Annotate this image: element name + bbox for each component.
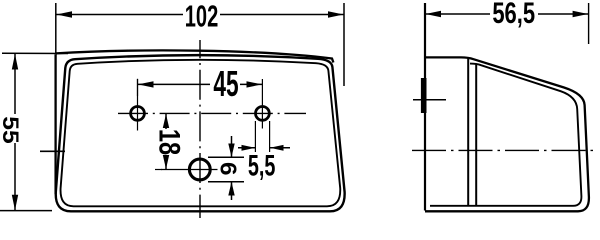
front view lens outer outline — [56, 55, 345, 211]
side view housing-lens boundary line 1 — [467, 58, 469, 206]
side view outer outline — [425, 57, 589, 211]
hole right circle — [256, 107, 270, 121]
big hole horizontal crosshair — [161, 169, 218, 171]
front view lens inner outline — [61, 60, 341, 206]
front view body left edge — [54, 54, 56, 194]
side view screw cross line — [413, 99, 446, 101]
big hole circle — [189, 159, 210, 180]
dimension 18 extension at big hole — [155, 169, 162, 171]
dimension 6 lower arrow — [228, 182, 234, 196]
dimension 6 lower arrow line — [231, 182, 233, 200]
dimension 55 line — [14, 54, 16, 210]
svg-text:55: 55 — [0, 116, 23, 143]
dimension 56,5 left arrow — [426, 11, 442, 17]
dimension 5,5 right arrow — [270, 145, 284, 151]
svg-text:6: 6 — [215, 162, 241, 175]
side view housing-lens boundary line 2 — [475, 64, 477, 206]
dimension 45 left arrow — [138, 81, 154, 87]
dimension 18 top arrow — [163, 114, 169, 128]
dimension 5,5 left arrow — [242, 145, 256, 151]
dimension 5,5 line — [238, 147, 290, 149]
dimension 55 top arrow — [12, 54, 18, 70]
dimension 102 line — [56, 14, 344, 16]
dimension 6 upper arrow — [228, 144, 234, 158]
hole left circle — [131, 107, 145, 121]
dimension 6 upper arrow line — [231, 136, 233, 157]
dimension 102 left extension line — [55, 3, 57, 53]
dimension 102 right arrow — [328, 11, 344, 17]
front view body top arc — [56, 50, 334, 62]
side view centerline (dash-dot) — [412, 149, 597, 151]
dimension 45 left extension — [137, 79, 139, 96]
dimension 102 left arrow — [57, 11, 73, 17]
dimension 102 right extension line — [343, 3, 345, 86]
dimension 56,5 line — [425, 13, 588, 15]
svg-text:45: 45 — [213, 65, 238, 104]
dimension 55 bottom arrow — [12, 195, 18, 211]
dimension 5,5 right tangent line — [269, 121, 271, 152]
side view left edge / extension line — [424, 3, 426, 211]
hole left vertical crosshair — [137, 79, 139, 131]
dimension 5,5 left tangent line — [254, 121, 256, 152]
side view mounting tab — [421, 78, 427, 113]
dimension 55 top extension line — [2, 52, 68, 54]
dimension 18 bottom arrow — [163, 155, 169, 169]
svg-text:18: 18 — [153, 129, 186, 155]
centerline vertical through big hole (dash-dot) — [199, 40, 201, 218]
dimension 6 top tangent line — [208, 156, 244, 158]
dimension 45 right arrow — [247, 81, 263, 87]
dimension 6 bottom tangent line — [208, 181, 244, 183]
side view inner lens line — [430, 64, 581, 206]
dimension 56,5 right extension line — [588, 3, 590, 44]
svg-text:5,5: 5,5 — [248, 150, 275, 183]
front view optical axis tick on left edge — [40, 150, 65, 152]
svg-text:56,5: 56,5 — [492, 0, 535, 30]
centerline horizontal through small holes (dash-dot) — [118, 112, 306, 114]
dimension 18 line — [165, 114, 167, 169]
hole right vertical crosshair — [261, 79, 263, 129]
dimension 45 line — [138, 83, 262, 85]
dimension 56,5 right arrow — [573, 11, 589, 17]
dimension 55 bottom extension line — [0, 210, 52, 212]
svg-text:102: 102 — [185, 0, 219, 33]
